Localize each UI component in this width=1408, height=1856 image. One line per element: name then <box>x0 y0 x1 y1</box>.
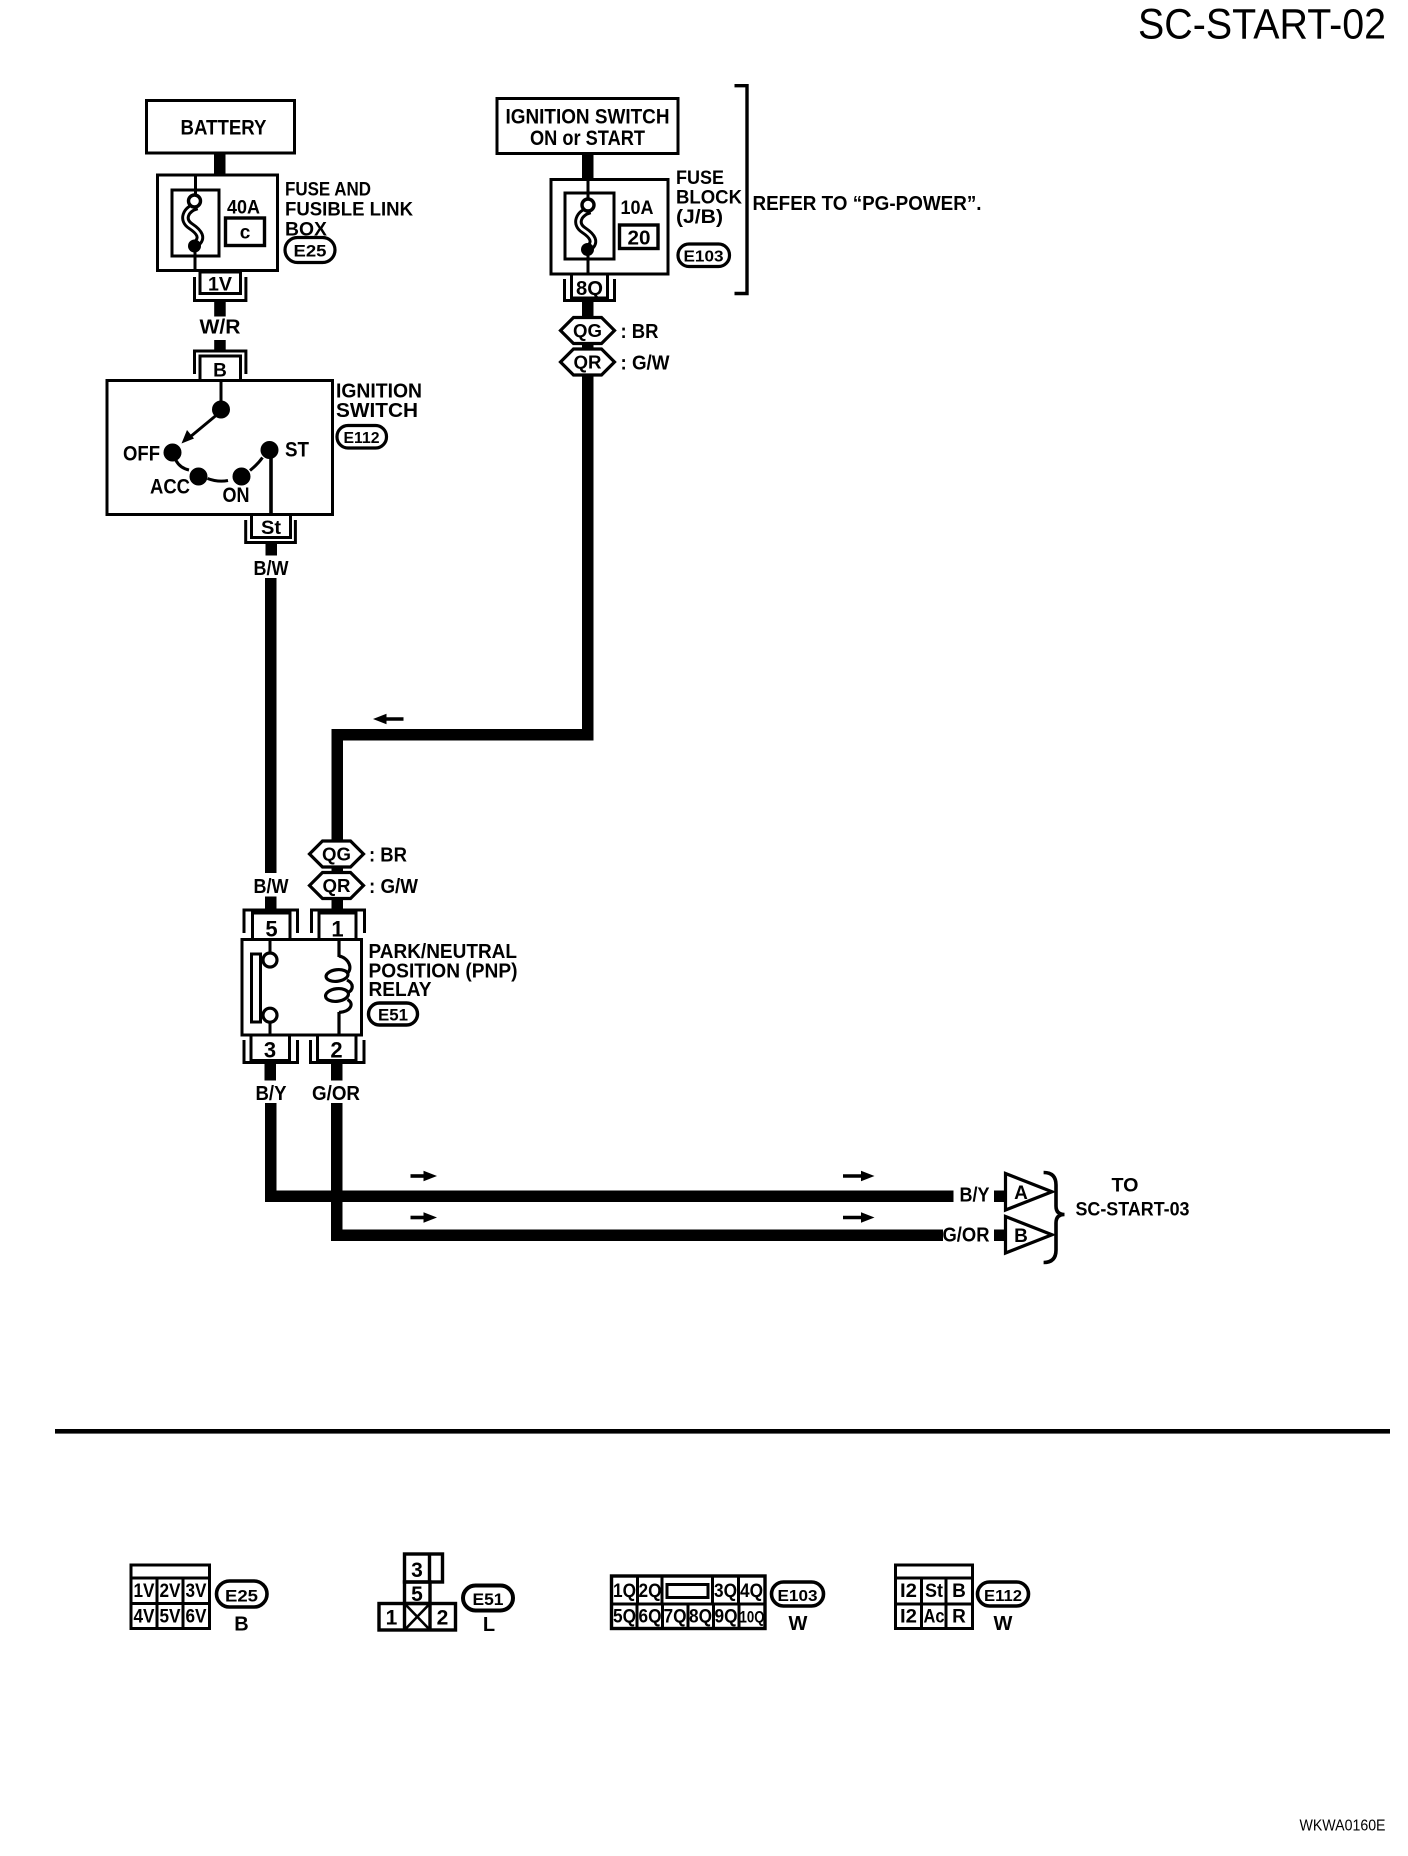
svg-text:2V: 2V <box>160 1581 181 1602</box>
svg-text:4V: 4V <box>134 1607 155 1628</box>
svg-text:1: 1 <box>386 1607 398 1630</box>
svg-text:B: B <box>952 1581 966 1602</box>
svg-text:5V: 5V <box>160 1607 181 1628</box>
svg-text:: BR: : BR <box>369 845 408 867</box>
connector 1V <box>195 272 246 301</box>
brace to SC-START-03 <box>1044 1173 1065 1263</box>
flow arrow right B/Y left <box>411 1171 438 1182</box>
svg-text:1V: 1V <box>208 275 232 296</box>
svg-text:8Q: 8Q <box>576 278 603 300</box>
off-page arrow B <box>1006 1217 1053 1254</box>
relay E51 box <box>242 940 362 1036</box>
svg-text:QR: QR <box>323 876 351 896</box>
svg-text:ON or START: ON or START <box>530 127 645 150</box>
wire stub to arrow A <box>994 1191 1006 1203</box>
wire stub above pin 5 <box>265 897 277 909</box>
svg-text:A: A <box>1014 1183 1028 1204</box>
svg-text:3: 3 <box>264 1038 276 1063</box>
splice QG lower <box>310 841 364 867</box>
flow arrow right G/OR right <box>843 1212 875 1223</box>
svg-text:: BR: : BR <box>621 321 660 343</box>
wire G/OR horizontal <box>331 1230 943 1242</box>
svg-text:E112: E112 <box>344 430 380 447</box>
svg-text:FUSIBLE LINK: FUSIBLE LINK <box>285 200 413 221</box>
svg-text:SC-START-02: SC-START-02 <box>1138 1 1386 49</box>
svg-text:B/W: B/W <box>254 876 289 898</box>
flow arrow right G/OR left <box>411 1212 438 1223</box>
svg-text:WKWA0160E: WKWA0160E <box>1300 1818 1386 1835</box>
svg-text:6Q: 6Q <box>639 1607 662 1628</box>
stub ACC toward ON <box>208 479 229 482</box>
fusible link 40A c inner box <box>172 190 219 256</box>
ON contact dot <box>233 468 251 486</box>
ST contact dot <box>261 441 279 459</box>
svg-text:St: St <box>925 1581 944 1602</box>
wire ign sw to fuse block <box>582 154 594 180</box>
svg-text:9Q: 9Q <box>715 1607 738 1628</box>
svg-text:ST: ST <box>285 439 309 462</box>
svg-text:B/Y: B/Y <box>256 1083 288 1105</box>
wire stub below 8Q <box>582 302 594 317</box>
wire stub between splices <box>582 344 594 350</box>
svg-text:TO: TO <box>1112 1176 1139 1197</box>
label TO SC-START-03 <box>1076 1176 1190 1221</box>
connector oval E25 <box>285 238 335 263</box>
svg-text:ON: ON <box>223 484 250 507</box>
flow arrow left <box>373 714 404 725</box>
svg-text:E103: E103 <box>684 249 724 266</box>
bracket for PG-POWER note <box>735 86 748 294</box>
svg-text:W: W <box>789 1613 808 1635</box>
wire stub between lower splices <box>332 867 344 873</box>
svg-text:R: R <box>952 1607 966 1628</box>
ignition switch ON or START box <box>497 99 678 154</box>
svg-text:1V: 1V <box>134 1581 155 1602</box>
label FUSE AND FUSIBLE LINK BOX <box>285 180 413 241</box>
splice QR lower <box>310 873 364 899</box>
svg-text:E25: E25 <box>225 1587 258 1606</box>
svg-text:20: 20 <box>628 228 651 250</box>
svg-text:E51: E51 <box>378 1007 408 1025</box>
wire vertical down to QG lower <box>332 729 344 842</box>
svg-text:5Q: 5Q <box>613 1607 636 1628</box>
wire battery to fuse box <box>214 153 226 176</box>
svg-text:QR: QR <box>574 353 602 373</box>
svg-text:B: B <box>1014 1226 1028 1247</box>
fuse 20 box <box>620 225 659 250</box>
connector oval E103 bottom <box>772 1582 824 1606</box>
fuse 10A inner box <box>565 193 614 259</box>
off-page arrow A <box>1006 1174 1053 1211</box>
svg-text:IGNITION SWITCH: IGNITION SWITCH <box>506 106 670 129</box>
svg-text:E25: E25 <box>294 242 327 261</box>
connector oval E103 <box>678 244 730 267</box>
label FUSE BLOCK (J/B) <box>676 168 742 228</box>
ACC contact dot <box>190 468 208 486</box>
wire horizontal jog left <box>332 729 594 741</box>
connector oval E51 <box>369 1003 418 1025</box>
connector St <box>246 515 296 543</box>
connector face E103 <box>612 1576 766 1629</box>
svg-text:BLOCK: BLOCK <box>676 188 742 209</box>
svg-text:RELAY: RELAY <box>369 979 433 1001</box>
svg-text:1: 1 <box>331 917 343 942</box>
wire G/OR vertical <box>331 1103 343 1241</box>
splice QR upper <box>561 349 615 375</box>
fuse block J/B box <box>551 180 668 275</box>
svg-text:St: St <box>261 518 282 539</box>
svg-text:2Q: 2Q <box>639 1581 662 1602</box>
svg-text:Ac: Ac <box>924 1607 945 1628</box>
relay contact branch <box>252 941 278 1034</box>
connector pin 5 <box>244 910 298 942</box>
connector oval E51 bottom <box>463 1586 513 1611</box>
svg-text:I2: I2 <box>900 1607 917 1628</box>
connector oval E112 bottom <box>978 1582 1029 1606</box>
connector pin 1 <box>312 910 365 942</box>
connector pin 3 <box>244 1035 298 1063</box>
flow arrow right B/Y right <box>843 1171 875 1182</box>
svg-text:L: L <box>483 1614 495 1636</box>
svg-text:5: 5 <box>265 917 277 942</box>
svg-text:B: B <box>234 1614 248 1636</box>
wire stub below pin 3 <box>265 1064 277 1081</box>
svg-text:B/Y: B/Y <box>960 1185 991 1207</box>
svg-text:7Q: 7Q <box>664 1607 687 1628</box>
svg-text:3: 3 <box>411 1559 423 1582</box>
wire B/Y horizontal <box>265 1191 954 1203</box>
svg-text:SWITCH: SWITCH <box>336 400 418 422</box>
svg-text:B/W: B/W <box>254 558 289 580</box>
svg-text:E112: E112 <box>984 1588 1022 1605</box>
svg-text:1Q: 1Q <box>613 1581 636 1602</box>
wire into switch <box>220 382 223 404</box>
svg-text:2: 2 <box>330 1038 342 1063</box>
svg-text:10Q: 10Q <box>740 1608 765 1627</box>
connector face E51 <box>379 1554 456 1630</box>
switch wiper arrow <box>182 413 220 444</box>
wire B/Y vertical <box>265 1103 277 1202</box>
svg-text:E51: E51 <box>473 1590 504 1609</box>
svg-text:FUSE: FUSE <box>676 168 724 189</box>
connector oval E25 bottom <box>217 1581 268 1607</box>
svg-text:SC-START-03: SC-START-03 <box>1076 1200 1190 1221</box>
wire B/W long vertical <box>265 578 277 873</box>
svg-text:B: B <box>213 361 227 382</box>
svg-text:W: W <box>994 1613 1013 1635</box>
connector B <box>195 351 246 382</box>
svg-text:I2: I2 <box>900 1581 917 1602</box>
fuse element symbol <box>578 180 594 275</box>
svg-text:BATTERY: BATTERY <box>181 117 267 140</box>
wire stub above B <box>214 340 226 353</box>
fusible link element symbol <box>185 175 201 272</box>
svg-text:(J/B): (J/B) <box>676 207 723 228</box>
wire stub below St <box>266 544 278 556</box>
stub ON to ST <box>250 458 263 471</box>
svg-text:40A: 40A <box>227 198 260 219</box>
connector 8Q <box>565 274 615 301</box>
wire long vertical from QR down <box>582 375 594 741</box>
switch common node dot <box>212 401 230 419</box>
svg-text:FUSE AND: FUSE AND <box>285 180 371 201</box>
svg-text:W/R: W/R <box>200 317 242 339</box>
wire stub to arrow B <box>994 1230 1006 1242</box>
connector face E25 <box>131 1565 210 1629</box>
svg-text:QG: QG <box>573 321 602 341</box>
connector oval E112 <box>337 426 387 449</box>
label PARK/NEUTRAL POSITION (PNP) RELAY <box>369 941 518 1001</box>
battery box <box>147 101 295 154</box>
svg-text:3V: 3V <box>186 1581 207 1602</box>
wire stub above pin 1 <box>332 899 344 909</box>
svg-text:ACC: ACC <box>150 476 190 499</box>
wire stub below 1V <box>214 302 226 317</box>
OFF contact dot <box>164 444 182 462</box>
wire ST to St pin <box>269 450 273 514</box>
fuse and fusible link box E25 outline <box>158 175 278 271</box>
fuse c box <box>226 218 265 246</box>
relay coil branch <box>325 941 352 1034</box>
splice QG upper <box>561 318 615 344</box>
svg-text:G/OR: G/OR <box>312 1083 361 1105</box>
connector pin 2 <box>311 1035 365 1063</box>
svg-text:c: c <box>240 223 251 244</box>
svg-text:6V: 6V <box>186 1607 207 1628</box>
svg-text:: G/W: : G/W <box>621 353 670 375</box>
svg-text:10A: 10A <box>621 198 654 219</box>
label IGNITION SWITCH <box>336 381 422 423</box>
separator rule <box>55 1429 1390 1434</box>
connector face E112 <box>896 1565 973 1629</box>
svg-text:8Q: 8Q <box>689 1607 712 1628</box>
svg-text:4Q: 4Q <box>740 1581 763 1602</box>
stub OFF to ACC <box>176 461 189 471</box>
svg-text:2: 2 <box>437 1607 449 1630</box>
svg-text:3Q: 3Q <box>714 1581 737 1602</box>
wire stub below pin 2 <box>331 1064 343 1081</box>
svg-text:G/OR: G/OR <box>943 1225 991 1247</box>
svg-text:QG: QG <box>322 845 351 865</box>
svg-text:OFF: OFF <box>123 443 160 466</box>
ignition switch box E112 <box>107 381 333 515</box>
svg-text:REFER TO “PG-POWER”.: REFER TO “PG-POWER”. <box>753 193 982 215</box>
svg-text:E103: E103 <box>778 1588 818 1605</box>
svg-text:: G/W: : G/W <box>369 876 418 898</box>
